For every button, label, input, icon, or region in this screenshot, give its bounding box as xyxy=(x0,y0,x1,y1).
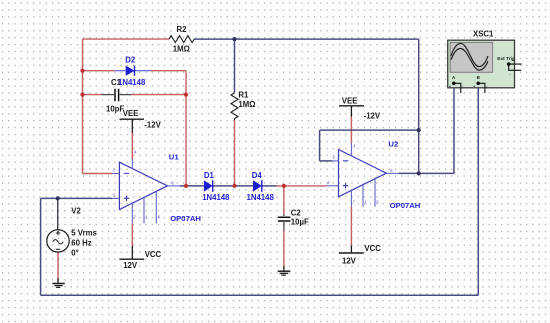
U1 pin 4 stub (V-) xyxy=(131,159,133,169)
capacitor C1 xyxy=(101,89,131,101)
wire D4 cathode to U2 noninverting input xyxy=(277,185,327,187)
wire U2 feedback left vertical xyxy=(319,130,321,161)
svg-text:1MΩ: 1MΩ xyxy=(238,100,255,109)
diode D2 xyxy=(115,66,151,76)
svg-text:D1: D1 xyxy=(204,171,215,180)
U1 pin 6 stub (output) xyxy=(167,185,180,187)
wire feedback right vertical to U1 output xyxy=(185,71,187,186)
node junction V2 plus / U1 +in xyxy=(56,196,60,200)
ground (below V2) xyxy=(52,278,64,288)
wire V2 minus to ground xyxy=(57,252,59,278)
node junction D4 / C2 / U2 +in xyxy=(282,184,286,188)
wire U2 output to scope A corner xyxy=(399,172,454,174)
U1 pin 7 stub (V+) xyxy=(131,202,133,223)
node junction U2 output / scope A xyxy=(417,171,421,175)
wire C1 left branch xyxy=(83,94,102,96)
U2 pin 1 stub xyxy=(362,184,364,207)
wire U2 feedback top horizontal xyxy=(320,129,419,131)
diode D4 xyxy=(253,180,262,192)
svg-text:12V: 12V xyxy=(123,261,138,270)
wire C2 bottom lead to ground xyxy=(283,231,285,266)
svg-text:-12V: -12V xyxy=(144,121,161,130)
scope waveform trace B xyxy=(451,49,488,71)
svg-text:12V: 12V xyxy=(342,257,357,266)
node junction D1-D4 / R1 bottom xyxy=(232,184,236,188)
ground (below C2) xyxy=(278,266,291,275)
diode D1 xyxy=(204,180,213,192)
svg-text:1N4148: 1N4148 xyxy=(202,193,230,202)
AC source V2 xyxy=(47,230,69,252)
U2 pin 6 stub (output) xyxy=(386,172,399,174)
node junction at C1 left / feedback left xyxy=(80,93,84,97)
wire R1 bottom vertical xyxy=(234,120,236,186)
svg-text:VEE: VEE xyxy=(123,109,139,118)
wire D2 cathode branch xyxy=(151,70,187,72)
wire top horizontal to R2 left xyxy=(83,38,170,40)
node junction at U1 output xyxy=(184,184,188,188)
oscilloscope XSC1 xyxy=(448,40,522,93)
svg-text:VCC: VCC xyxy=(364,244,381,253)
U2 pin number labels xyxy=(327,144,393,205)
terminal polarity marks xyxy=(449,59,514,89)
svg-text:60 Hz: 60 Hz xyxy=(71,238,91,247)
U2 pin 7 stub (V+) xyxy=(350,190,352,207)
wire D1 cathode to D4 anode xyxy=(213,185,253,187)
svg-text:+: + xyxy=(473,85,475,89)
svg-text:VCC: VCC xyxy=(145,250,162,259)
op-amp U1 xyxy=(112,150,180,224)
U1 pin 8 stub xyxy=(155,191,157,224)
wire V2 plus terminal vertical xyxy=(57,198,59,229)
svg-text:D4: D4 xyxy=(252,171,263,180)
svg-text:OP07AH: OP07AH xyxy=(390,201,421,210)
wire to U2 inverting input xyxy=(320,160,332,162)
wire D4 cathode lead xyxy=(262,185,277,187)
wire U1 pin7 to VCC xyxy=(131,223,133,246)
svg-text:D2: D2 xyxy=(125,55,136,64)
node junction R2 / R1 top xyxy=(232,37,236,41)
wire U1 pin4 to VEE xyxy=(131,133,133,160)
wire C2 top lead xyxy=(283,186,285,214)
op-amp U2 xyxy=(326,143,399,207)
resistor R2 xyxy=(169,36,194,43)
wire R1 top vertical xyxy=(234,39,236,93)
power symbol VEE (U1) xyxy=(120,119,145,133)
power symbol VCC (U1) xyxy=(119,246,144,259)
svg-text:1N4148: 1N4148 xyxy=(247,193,275,202)
resistor R1 xyxy=(231,93,238,120)
svg-text:1N4148: 1N4148 xyxy=(118,78,146,87)
wire bottom horizontal return xyxy=(41,294,479,296)
scope ext trig terminal xyxy=(507,62,511,66)
svg-text:R1: R1 xyxy=(238,90,249,99)
wire U1 output to D1 anode xyxy=(180,185,204,187)
scope waveform trace A xyxy=(451,43,488,66)
svg-text:V2: V2 xyxy=(71,207,81,216)
U2 pin 8 stub xyxy=(374,178,376,207)
U1 pin 3 stub (noninverting) xyxy=(112,197,119,199)
wire scope channel A vertical xyxy=(453,85,455,174)
wire R2 right to top-right corner xyxy=(194,38,419,40)
wire C1 right branch xyxy=(131,94,186,96)
power symbol VEE (U2) xyxy=(339,106,364,117)
U1 pin 1 stub xyxy=(143,197,145,224)
svg-text:U1: U1 xyxy=(169,152,180,161)
node junction at C1 right / feedback right xyxy=(184,93,188,97)
scope terminal B xyxy=(476,82,480,86)
svg-text:+: + xyxy=(449,85,451,89)
svg-text:XSC1: XSC1 xyxy=(473,30,494,39)
U2 pin 4 stub (V-) xyxy=(350,143,352,156)
wire U2 pin4 to VEE xyxy=(350,116,352,143)
svg-text:R2: R2 xyxy=(177,25,188,34)
svg-text:5 Vrms: 5 Vrms xyxy=(71,228,97,237)
power symbol VCC (U2) xyxy=(339,246,364,254)
svg-text:OP07AH: OP07AH xyxy=(170,214,201,223)
svg-text:1MΩ: 1MΩ xyxy=(173,45,190,54)
U1 pin 2 stub (inverting) xyxy=(112,173,119,175)
wire left vertical return xyxy=(40,198,42,295)
node junction at D2 anode / feedback left xyxy=(80,69,84,73)
svg-text:0°: 0° xyxy=(71,249,78,258)
svg-text:-12V: -12V xyxy=(364,112,381,121)
svg-text:+: + xyxy=(512,59,514,63)
wire U1 feedback left vertical (U1 -in net) xyxy=(82,39,84,173)
svg-text:U2: U2 xyxy=(388,140,398,149)
scope terminal A xyxy=(452,82,456,86)
wire scope channel B vertical xyxy=(477,85,479,296)
wire to U1 inverting input xyxy=(83,173,113,175)
U2 pin 3 stub (noninverting) xyxy=(326,185,339,187)
U2 pin 2 stub (inverting) xyxy=(332,160,339,162)
U1 pin number labels xyxy=(113,150,175,220)
capacitor C2 xyxy=(278,214,291,232)
svg-text:VEE: VEE xyxy=(342,96,358,105)
svg-text:10µF: 10µF xyxy=(291,218,309,227)
wire to U1 noninverting input xyxy=(41,197,112,199)
wire U2 pin7 to VCC xyxy=(350,207,352,246)
node junction U2 feedback / output vertical xyxy=(417,128,421,132)
wire D2 anode branch xyxy=(83,70,115,72)
svg-text:C2: C2 xyxy=(291,209,302,218)
svg-text:10pF: 10pF xyxy=(106,105,124,114)
wire right vertical down to U2 output node xyxy=(418,39,420,173)
